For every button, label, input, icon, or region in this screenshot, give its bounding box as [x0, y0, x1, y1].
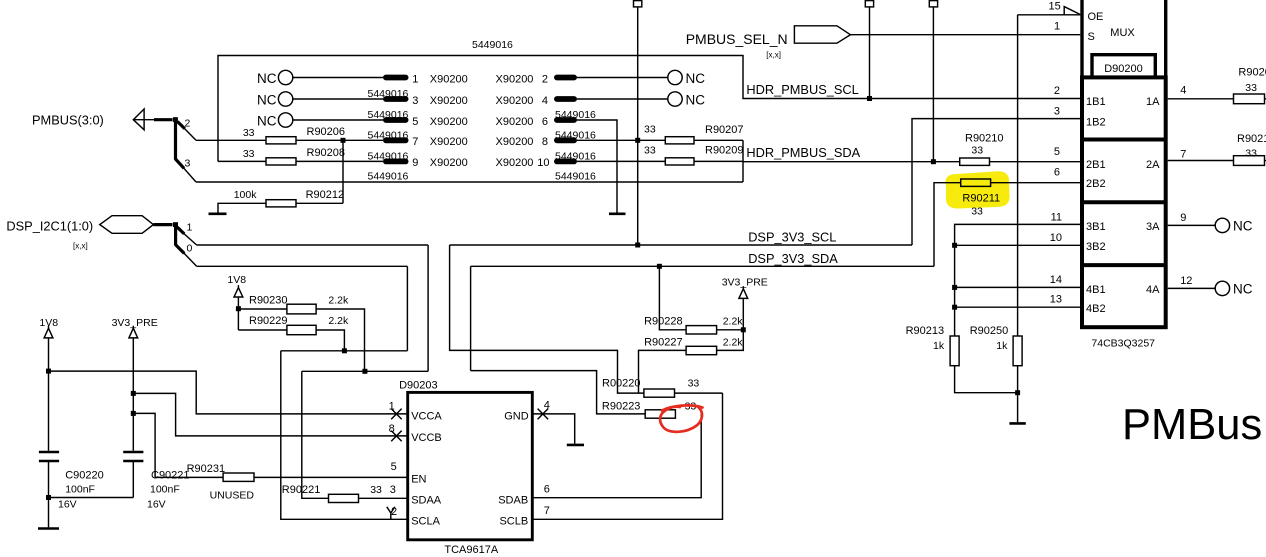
svg-text:3B1: 3B1 — [1086, 221, 1106, 233]
wire top stub1 riser — [637, 7, 639, 245]
bus entry hexagon DSP_I2C1 — [100, 216, 154, 234]
svg-text:R90210: R90210 — [965, 133, 1004, 145]
svg-text:VCCB: VCCB — [411, 432, 442, 444]
wire DSP_3V3_SCL riser down (right branch) — [450, 245, 644, 393]
wire 1V8 stub down — [237, 297, 239, 330]
svg-text:2.2k: 2.2k — [328, 315, 349, 327]
wire 1V8 rail down to C90220 — [48, 338, 50, 451]
svg-text:R90209: R90209 — [705, 145, 744, 157]
bus tap square DSP_I2C1 — [173, 222, 178, 227]
bus DSP_I2C1 thick trunk — [153, 225, 184, 254]
junction R90213/R90250 ground — [1015, 390, 1020, 395]
wire VCCA from 1V8 — [49, 371, 407, 414]
wire HDR_PMBUS_SDA row to R90210 — [743, 161, 960, 163]
svg-text:3A: 3A — [1146, 221, 1160, 233]
svg-text:2B1: 2B1 — [1086, 159, 1106, 171]
svg-text:5449016: 5449016 — [368, 109, 409, 121]
wire R90230 right leg down to dot2 — [316, 309, 364, 371]
junction 1V8 / R90230 — [236, 306, 241, 311]
off-page stub square 1 (top) — [634, 1, 642, 7]
wire MUX 4B2 row — [955, 306, 1080, 308]
svg-text:R90221: R90221 — [282, 484, 321, 496]
svg-text:1V8: 1V8 — [227, 274, 246, 286]
wire pin2 to NC — [577, 77, 668, 79]
svg-text:X90200: X90200 — [496, 73, 534, 85]
wire 2A to R9021x — [1168, 160, 1234, 162]
svg-text:C90221: C90221 — [151, 470, 190, 482]
junction 4B2 row — [952, 305, 957, 310]
svg-text:5449016: 5449016 — [472, 39, 513, 51]
wire SDAB to R90223 riser — [532, 414, 701, 498]
svg-text:R90230: R90230 — [249, 294, 288, 306]
NC circle pin2 — [668, 70, 682, 84]
svg-text:C90220: C90220 — [65, 470, 104, 482]
wire pin10 row to R90209 — [577, 160, 665, 162]
svg-text:SDAA: SDAA — [411, 495, 442, 507]
svg-text:1A: 1A — [1146, 96, 1160, 108]
svg-text:12: 12 — [1180, 275, 1192, 287]
svg-text:3V3_PRE: 3V3_PRE — [722, 276, 768, 288]
svg-text:R9021: R9021 — [1237, 133, 1266, 145]
svg-text:4B2: 4B2 — [1086, 303, 1106, 315]
wire R90208 to header pin9 — [296, 160, 383, 162]
wire NC to pin1 — [293, 77, 383, 79]
svg-text:5: 5 — [391, 461, 397, 473]
wire R90207 to right vertical — [694, 139, 743, 141]
junction R90228 / 3V3_PRE riser — [741, 327, 746, 332]
svg-text:11: 11 — [1051, 212, 1062, 224]
resistor R90207 — [665, 137, 694, 144]
junction HDR_PMBUS_SCL / top stub — [867, 96, 872, 101]
ic D90203 TCA9617A outline — [408, 392, 533, 539]
svg-text:10: 10 — [537, 157, 549, 169]
svg-text:1: 1 — [1054, 21, 1060, 33]
wire SCLA net down and into pin2 — [281, 351, 407, 520]
resistor R90223 — [645, 410, 675, 418]
svg-text:NC: NC — [1233, 219, 1253, 234]
ground for R90213/R90250 — [1009, 422, 1025, 425]
svg-text:2.2k: 2.2k — [723, 316, 744, 328]
svg-text:3: 3 — [390, 484, 396, 496]
svg-text:R90213: R90213 — [906, 325, 945, 337]
NC circle pin1 — [278, 70, 292, 84]
wire R90223 left to DSP_3V3_SDA riser — [471, 371, 646, 414]
svg-text:1B1: 1B1 — [1086, 96, 1106, 108]
svg-text:D90203: D90203 — [399, 379, 438, 391]
svg-text:33: 33 — [243, 148, 255, 160]
wire top stub3 riser to HDR_PMBUS_SDA — [932, 7, 934, 162]
svg-text:5449016: 5449016 — [368, 151, 409, 163]
junction DSP_3V3_SDA / R90228 riser — [657, 264, 662, 269]
svg-text:5449016: 5449016 — [368, 88, 409, 100]
svg-text:PMBUS_SEL_N: PMBUS_SEL_N — [686, 31, 788, 47]
svg-text:9: 9 — [412, 157, 418, 169]
svg-text:7: 7 — [412, 136, 418, 148]
svg-text:1: 1 — [187, 221, 193, 233]
wire R9020x to edge — [1265, 98, 1266, 100]
wire 4A to NC — [1168, 287, 1216, 289]
wire R90213 bottom to common ground — [955, 366, 1018, 393]
resistor R9021x (right edge) — [1234, 156, 1265, 166]
svg-text:R90229: R90229 — [249, 315, 288, 327]
header pin bar 3 — [383, 96, 409, 102]
svg-text:R90206: R90206 — [307, 126, 346, 138]
resistor R90213 (vertical) — [950, 336, 959, 366]
wire R90231 to EN pin — [254, 476, 407, 478]
resistor R9020x (right edge) — [1234, 94, 1265, 104]
wire pin8 row to R90207 — [577, 139, 665, 141]
svg-text:R9020: R9020 — [1238, 66, 1266, 78]
bus tap square PMBUS — [173, 117, 178, 122]
wire MUX 3B1 row with riser to R90213 — [955, 224, 1080, 336]
wire bit1 horizontal (DSP_3V3_SCL left) — [197, 244, 429, 246]
svg-text:2B2: 2B2 — [1086, 178, 1106, 190]
wire SDAA pull net horizontal — [302, 370, 428, 372]
header pin bar 10 — [554, 159, 577, 165]
svg-text:4A: 4A — [1146, 284, 1160, 296]
junction at R90206 / R90212 — [341, 138, 346, 143]
wire R90229 left — [238, 329, 287, 331]
svg-text:74CB3Q3257: 74CB3Q3257 — [1091, 337, 1155, 349]
svg-text:1B2: 1B2 — [1086, 116, 1106, 128]
wire 3V3_PRE rail down to C90221 — [132, 338, 134, 451]
wire bit1 breakout diagonal — [184, 234, 197, 246]
wire 1A to R9020x — [1168, 98, 1234, 100]
mux section divider 2 — [1082, 200, 1166, 204]
wire PMBUS bit2 breakout diagonal — [184, 128, 196, 140]
wire DSP_3V3_SCL — [450, 244, 912, 246]
resistor R90250 (vertical) — [1013, 336, 1022, 366]
svg-text:2: 2 — [542, 73, 548, 85]
wire SCLA net horizontal — [281, 350, 408, 352]
ground for R90212 — [209, 213, 227, 216]
NC circle pin3 — [278, 92, 292, 106]
mux D90200 control block outline — [1082, 0, 1166, 76]
wire caps common — [49, 497, 134, 499]
svg-text:R90227: R90227 — [644, 337, 683, 349]
capacitor C90220 — [39, 452, 59, 461]
wire bit0 breakout diagonal — [184, 253, 197, 266]
svg-text:X90200: X90200 — [430, 157, 468, 169]
svg-text:PMBUS(3:0): PMBUS(3:0) — [32, 113, 104, 128]
svg-text:5449016: 5449016 — [368, 170, 409, 182]
wire GND pin to ground — [532, 414, 574, 444]
header pin bar 1 — [383, 75, 409, 81]
wire VCCB from 3V3_PRE — [133, 393, 407, 436]
svg-text:1: 1 — [412, 73, 418, 85]
resistor R90230 — [238, 308, 287, 310]
header pin bar 6 — [554, 117, 577, 123]
resistor R90208 — [266, 158, 296, 165]
svg-text:10: 10 — [1050, 232, 1062, 244]
svg-text:6: 6 — [544, 484, 550, 496]
wire PMBUS bit3 breakout diagonal — [184, 168, 197, 182]
svg-text:[x,x]: [x,x] — [73, 242, 88, 251]
ground for caps — [38, 527, 59, 530]
svg-text:6: 6 — [1054, 167, 1060, 179]
wire R90212 to ground — [218, 203, 266, 212]
junction caps common — [46, 495, 51, 500]
wire pin4 to NC — [577, 98, 668, 100]
wire R90227 right to 3V3_PRE riser — [717, 298, 744, 350]
highlighter mark over R90211 — [945, 171, 1009, 208]
svg-text:UNUSED: UNUSED — [210, 490, 255, 502]
svg-text:33: 33 — [644, 144, 656, 156]
svg-text:100k: 100k — [234, 189, 258, 201]
svg-text:33: 33 — [1245, 147, 1257, 159]
resistor R90221 — [329, 494, 359, 502]
svg-text:R00220: R00220 — [602, 378, 641, 390]
wire PMBUS_SEL_N to MUX S pin — [850, 34, 1080, 36]
svg-text:X90200: X90200 — [430, 136, 468, 148]
junction 1V8 / VCCA wire — [46, 369, 51, 374]
wire HDR_PMBUS_SCL left loop: R90208 up over header — [218, 56, 1080, 162]
wire PMBUS bit2 to R90206 — [196, 139, 266, 141]
no-connect X on GND — [538, 409, 549, 420]
red pen annotation around value 33 — [660, 405, 702, 431]
svg-text:R90208: R90208 — [307, 147, 346, 159]
wire SCLB to R00220 riser — [532, 393, 722, 519]
wire R9021x to edge — [1265, 160, 1266, 162]
svg-text:R90231: R90231 — [187, 463, 226, 475]
wire bit0 horizontal (DSP_3V3_SDA left) — [197, 265, 408, 267]
svg-text:VCCA: VCCA — [411, 411, 442, 423]
svg-text:100nF: 100nF — [65, 484, 95, 496]
wire C90220 top — [48, 451, 50, 452]
svg-text:EN: EN — [411, 473, 426, 485]
svg-text:X90200: X90200 — [496, 157, 534, 169]
svg-text:14: 14 — [1050, 274, 1062, 286]
svg-text:2.2k: 2.2k — [723, 337, 744, 349]
svg-text:33: 33 — [1245, 82, 1257, 94]
svg-text:1k: 1k — [996, 340, 1008, 352]
wire R90228 left riser to DSP_3V3_SDA — [659, 266, 686, 330]
wire R90221 to SDAA pin — [359, 497, 407, 499]
svg-text:X90200: X90200 — [430, 116, 468, 128]
wire R90250 riser from OE — [1017, 15, 1019, 336]
junction dot1 R90229 / SCLA net — [342, 348, 347, 353]
svg-text:R90207: R90207 — [705, 124, 744, 136]
wire 3A to NC — [1168, 224, 1216, 226]
NC circle 4A — [1215, 281, 1229, 295]
bus PMBUS thick trunk — [154, 120, 185, 169]
resistor R90228 — [686, 326, 717, 334]
mux section divider 3 — [1082, 263, 1166, 267]
svg-text:R90212: R90212 — [306, 189, 345, 201]
wire R90212 right to riser — [296, 202, 343, 204]
svg-text:4: 4 — [542, 95, 548, 107]
mux section divider 1 — [1082, 138, 1166, 142]
header pin bar 2 — [554, 75, 577, 81]
wire PMBUS bit3 long horizontal — [196, 181, 743, 183]
svg-text:3: 3 — [185, 158, 191, 170]
NC circle pin5 — [278, 113, 292, 127]
svg-text:PMBus: PMBus — [1122, 401, 1262, 449]
resistor R00220 — [644, 389, 675, 397]
junction dot2 R90230 / SDAA net — [362, 369, 367, 374]
resistor R90209 — [665, 158, 694, 165]
wire R90211 left leg down to DSP_3V3_SDA — [934, 183, 961, 267]
svg-text:2: 2 — [185, 118, 191, 130]
svg-text:NC: NC — [257, 71, 277, 86]
svg-text:X90200: X90200 — [496, 95, 534, 107]
svg-text:DSP_3V3_SDA: DSP_3V3_SDA — [748, 251, 838, 266]
svg-text:2.2k: 2.2k — [328, 294, 349, 306]
wire MUX OE pin with R90250 riser corner — [1018, 14, 1081, 16]
header pin bar 7 — [383, 137, 409, 143]
svg-text:13: 13 — [1050, 294, 1062, 306]
NC circle pin4 — [668, 92, 682, 106]
no-connect X on VCCB — [391, 431, 402, 442]
NC circle 3A — [1215, 218, 1229, 232]
header pin bar 4 — [554, 96, 577, 102]
wire R90211 to MUX 2B2 — [991, 182, 1080, 184]
junction 3V3_PRE / VCCB wire — [131, 391, 136, 396]
svg-text:X90200: X90200 — [430, 73, 468, 85]
wire EN from 3V3_PRE to R90231 — [133, 413, 223, 477]
svg-text:5449016: 5449016 — [368, 129, 409, 141]
svg-text:TCA9617A: TCA9617A — [444, 544, 498, 556]
header pin bar 9 — [383, 159, 409, 165]
svg-text:7: 7 — [544, 505, 550, 517]
junction 3V3_PRE / EN wire — [131, 411, 136, 416]
svg-text:OE: OE — [1088, 11, 1104, 23]
header pin bar 5 — [383, 117, 409, 123]
svg-text:SCLB: SCLB — [499, 515, 528, 527]
svg-text:2A: 2A — [1146, 159, 1160, 171]
svg-text:R90223: R90223 — [602, 400, 641, 412]
svg-text:X90200: X90200 — [496, 116, 534, 128]
svg-text:S: S — [1088, 31, 1095, 43]
wire R90250 bottom to ground — [1017, 366, 1019, 423]
svg-text:1k: 1k — [933, 340, 945, 352]
svg-text:7: 7 — [1180, 149, 1186, 161]
off-page arrow PMBUS_SEL_N — [794, 26, 850, 43]
wire R90227 left leg — [639, 350, 687, 393]
resistor R90206 — [266, 137, 296, 144]
wire NC to pin5 — [293, 119, 383, 121]
svg-text:3: 3 — [1054, 106, 1060, 118]
no-connect X on VCCA — [391, 409, 402, 420]
svg-text:33: 33 — [243, 127, 255, 139]
svg-text:16V: 16V — [147, 499, 166, 511]
wire R90206 to header pin7 — [296, 139, 383, 141]
OE invert slash — [1064, 7, 1080, 15]
wire R90210 to MUX 2B1 — [990, 161, 1081, 163]
svg-text:3B2: 3B2 — [1086, 241, 1106, 253]
svg-text:33: 33 — [971, 144, 983, 156]
svg-text:6: 6 — [542, 116, 548, 128]
off-page stub square 2 (top) — [865, 1, 873, 7]
resistor R90231 — [223, 473, 254, 481]
wire bit1 riser down to SDAA pull net — [427, 245, 429, 371]
svg-text:R90228: R90228 — [644, 316, 683, 328]
svg-text:33: 33 — [370, 484, 382, 496]
wire R00220 right — [675, 392, 723, 394]
bus entry arrow PMBUS — [133, 109, 154, 130]
svg-text:NC: NC — [686, 71, 706, 86]
capacitor C90221 — [123, 452, 143, 461]
svg-text:DSP_3V3_SCL: DSP_3V3_SCL — [748, 230, 836, 245]
svg-text:NC: NC — [686, 92, 706, 107]
svg-text:5449016: 5449016 — [555, 170, 596, 182]
svg-text:HDR_PMBUS_SCL: HDR_PMBUS_SCL — [746, 82, 858, 97]
svg-text:3: 3 — [412, 95, 418, 107]
svg-text:8: 8 — [542, 136, 548, 148]
wire net stub right vertical (bit3 to SDA row) — [742, 140, 744, 182]
wire NC to pin3 — [293, 98, 383, 100]
svg-text:R90250: R90250 — [970, 325, 1009, 337]
svg-text:100nF: 100nF — [150, 484, 180, 496]
junction 3B2 row — [952, 243, 957, 248]
mux 74CB3Q3257 main outline — [1082, 77, 1166, 327]
svg-text:GND: GND — [504, 411, 529, 423]
wire R90229 right leg down to dot1 — [316, 330, 344, 351]
svg-text:HDR_PMBUS_SDA: HDR_PMBUS_SDA — [746, 145, 860, 160]
wire DSP_3V3_SDA — [471, 265, 934, 267]
wire SDAA net down to R90221 — [302, 371, 329, 498]
ground for TCA GND — [567, 444, 584, 447]
ground for header pin6 — [609, 213, 626, 216]
off-page stub square 3 (top) — [929, 1, 937, 7]
wire bit0 riser down to SCLA net — [406, 266, 408, 351]
svg-text:9: 9 — [1180, 212, 1186, 224]
wire MUX 4B1 row — [955, 286, 1080, 288]
svg-text:D90200: D90200 — [1104, 63, 1143, 75]
svg-text:5: 5 — [412, 116, 418, 128]
junction 4B1 row — [952, 285, 957, 290]
resistor R90227 — [686, 346, 717, 354]
svg-text:NC: NC — [257, 92, 277, 107]
wire DSP_3V3_SDA riser down — [470, 266, 472, 370]
junction pin8 / top stub riser — [635, 138, 640, 143]
svg-text:X90200: X90200 — [496, 136, 534, 148]
svg-text:16V: 16V — [58, 499, 77, 511]
svg-text:0: 0 — [187, 242, 193, 254]
svg-text:5: 5 — [1054, 146, 1060, 158]
wire MUX 3B2 row — [955, 244, 1080, 246]
wire pin6 down to ground — [577, 120, 617, 213]
junction stub3 / HDR_PMBUS_SDA — [931, 159, 936, 164]
svg-text:15: 15 — [1049, 0, 1061, 12]
resistor R90211 (highlighted) — [961, 179, 991, 186]
wire R90209 to right vertical — [694, 160, 743, 162]
resistor R90229 — [287, 325, 316, 334]
svg-text:4: 4 — [1180, 85, 1186, 97]
svg-text:SCLA: SCLA — [411, 515, 440, 527]
svg-text:MUX: MUX — [1110, 27, 1135, 39]
svg-text:4B1: 4B1 — [1086, 284, 1106, 296]
svg-text:DSP_I2C1(1:0): DSP_I2C1(1:0) — [6, 218, 93, 233]
junction stub1 / DSP_3V3_SCL — [635, 243, 640, 248]
wire C90221 bottom — [132, 461, 134, 498]
svg-text:NC: NC — [1233, 282, 1253, 297]
svg-text:3V3_PRE: 3V3_PRE — [112, 317, 158, 329]
wire DSP_3V3_SCL riser to 1B2 — [912, 119, 1080, 245]
wire C90220 bottom to ground — [48, 461, 50, 527]
svg-text:[x,x]: [x,x] — [766, 51, 781, 60]
wire R90208 row — [218, 160, 266, 162]
svg-text:SDAB: SDAB — [498, 495, 528, 507]
svg-text:33: 33 — [688, 378, 700, 390]
wire R90228 right to 3V3_PRE riser — [717, 329, 744, 331]
wire top stub2 riser to HDR_PMBUS_SCL — [869, 7, 871, 99]
wire R90212 riser — [342, 140, 344, 203]
svg-text:33: 33 — [644, 124, 656, 136]
svg-text:X90200: X90200 — [430, 95, 468, 107]
header pin bar 8 — [554, 137, 577, 143]
svg-text:2: 2 — [1054, 85, 1060, 97]
